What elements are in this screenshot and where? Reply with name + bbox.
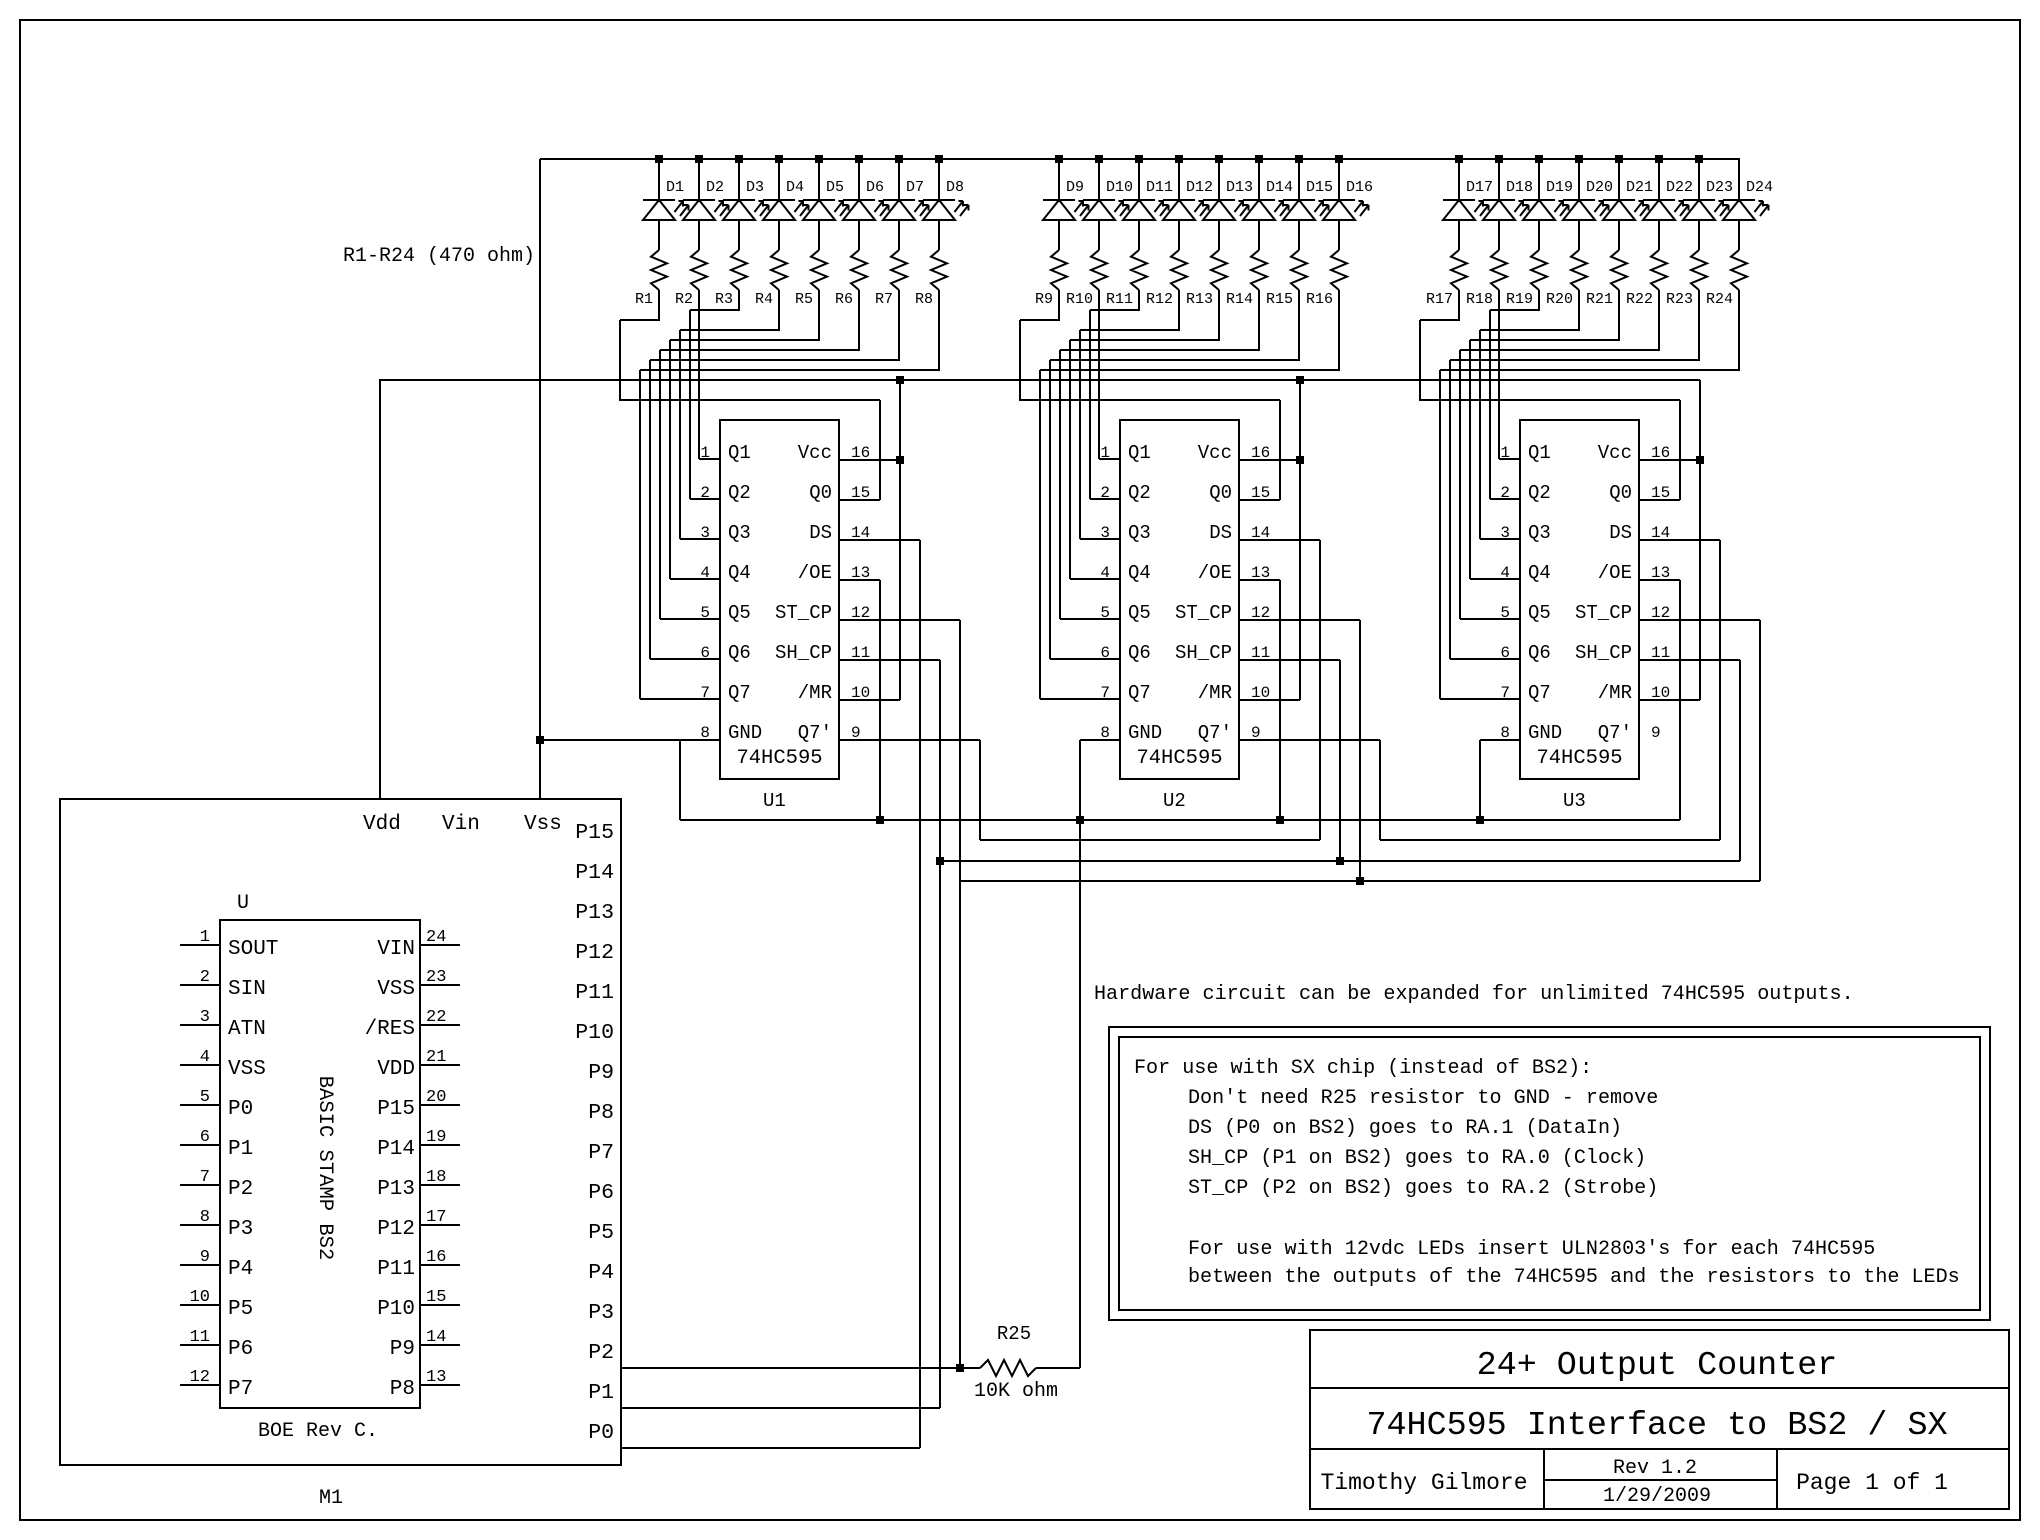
svg-text:P15: P15: [575, 821, 614, 845]
svg-text:/MR: /MR: [1598, 682, 1632, 704]
svg-text:21: 21: [426, 1048, 446, 1067]
svg-text:24: 24: [426, 928, 446, 947]
svg-text:74HC595: 74HC595: [1536, 747, 1622, 770]
svg-text:/MR: /MR: [798, 682, 832, 704]
svg-text:1: 1: [1500, 444, 1510, 462]
svg-text:D16: D16: [1346, 179, 1373, 196]
svg-text:14: 14: [1251, 524, 1270, 542]
svg-text:ST_CP: ST_CP: [775, 602, 832, 624]
svg-text:SH_CP (P1 on BS2) goes to RA.0: SH_CP (P1 on BS2) goes to RA.0 (Clock): [1188, 1147, 1646, 1170]
svg-text:Q3: Q3: [1128, 522, 1151, 544]
svg-text:1: 1: [700, 444, 710, 462]
svg-text:Q4: Q4: [728, 562, 751, 584]
svg-text:between the outputs of the 74H: between the outputs of the 74HC595 and t…: [1188, 1266, 1960, 1289]
svg-text:16: 16: [1251, 444, 1270, 462]
svg-text:For use with SX chip (instead: For use with SX chip (instead of BS2):: [1134, 1057, 1592, 1080]
svg-text:P0: P0: [228, 1098, 253, 1121]
svg-text:24+ Output Counter: 24+ Output Counter: [1477, 1347, 1838, 1385]
svg-text:R12: R12: [1146, 291, 1173, 308]
svg-text:P1: P1: [228, 1138, 253, 1161]
svg-text:P9: P9: [390, 1338, 415, 1361]
svg-text:P14: P14: [575, 861, 614, 885]
svg-text:R16: R16: [1306, 291, 1333, 308]
svg-text:D11: D11: [1146, 179, 1173, 196]
svg-text:Q2: Q2: [1528, 482, 1551, 504]
svg-text:1: 1: [200, 928, 210, 947]
svg-text:15: 15: [1251, 484, 1270, 502]
svg-text:ST_CP (P2 on BS2) goes to RA.2: ST_CP (P2 on BS2) goes to RA.2 (Strobe): [1188, 1177, 1658, 1200]
svg-text:Q5: Q5: [1528, 602, 1551, 624]
svg-text:P5: P5: [228, 1298, 253, 1321]
svg-text:ST_CP: ST_CP: [1575, 602, 1632, 624]
svg-text:R1: R1: [635, 291, 653, 308]
svg-text:R2: R2: [675, 291, 693, 308]
svg-text:Hardware circuit can be expand: Hardware circuit can be expanded for unl…: [1094, 983, 1854, 1006]
svg-text:4: 4: [200, 1048, 210, 1067]
svg-text:P12: P12: [575, 941, 614, 965]
svg-text:Q2: Q2: [1128, 482, 1151, 504]
svg-text:1: 1: [1100, 444, 1110, 462]
svg-text:Vcc: Vcc: [1598, 442, 1632, 464]
svg-text:D6: D6: [866, 179, 884, 196]
svg-text:8: 8: [700, 724, 710, 742]
svg-text:3: 3: [700, 524, 710, 542]
svg-text:10: 10: [190, 1288, 210, 1307]
svg-text:Q7: Q7: [1528, 682, 1551, 704]
svg-text:D21: D21: [1626, 179, 1653, 196]
svg-text:12: 12: [190, 1368, 210, 1387]
svg-text:Vss: Vss: [524, 813, 562, 836]
svg-text:P3: P3: [588, 1301, 614, 1325]
svg-text:Q5: Q5: [728, 602, 751, 624]
svg-text:/OE: /OE: [1198, 562, 1232, 584]
svg-text:Q6: Q6: [728, 642, 751, 664]
svg-text:P10: P10: [377, 1298, 415, 1321]
svg-text:D8: D8: [946, 179, 964, 196]
svg-text:2: 2: [1500, 484, 1510, 502]
svg-text:11: 11: [190, 1328, 210, 1347]
svg-text:Q7': Q7': [1598, 722, 1632, 744]
svg-text:Q7: Q7: [728, 682, 751, 704]
svg-text:1/29/2009: 1/29/2009: [1603, 1485, 1711, 1508]
svg-text:R15: R15: [1266, 291, 1293, 308]
svg-text:P9: P9: [588, 1061, 614, 1085]
svg-text:D1: D1: [666, 179, 684, 196]
svg-text:9: 9: [1251, 724, 1261, 742]
svg-text:Q3: Q3: [728, 522, 751, 544]
svg-text:P1: P1: [588, 1381, 614, 1405]
svg-text:10: 10: [851, 684, 870, 702]
svg-text:D12: D12: [1186, 179, 1213, 196]
svg-text:19: 19: [426, 1128, 446, 1147]
svg-text:16: 16: [1651, 444, 1670, 462]
svg-text:13: 13: [1651, 564, 1670, 582]
svg-text:R19: R19: [1506, 291, 1533, 308]
svg-text:SH_CP: SH_CP: [775, 642, 832, 664]
svg-text:P5: P5: [588, 1221, 614, 1245]
svg-text:P14: P14: [377, 1138, 415, 1161]
svg-text:2: 2: [700, 484, 710, 502]
svg-text:2: 2: [1100, 484, 1110, 502]
svg-text:7: 7: [700, 684, 710, 702]
svg-text:14: 14: [426, 1328, 446, 1347]
svg-text:R8: R8: [915, 291, 933, 308]
svg-text:5: 5: [1100, 604, 1110, 622]
svg-text:R7: R7: [875, 291, 893, 308]
svg-text:7: 7: [200, 1168, 210, 1187]
svg-text:4: 4: [700, 564, 710, 582]
svg-text:16: 16: [851, 444, 870, 462]
svg-text:7: 7: [1500, 684, 1510, 702]
svg-text:D20: D20: [1586, 179, 1613, 196]
svg-text:14: 14: [1651, 524, 1670, 542]
svg-text:10K ohm: 10K ohm: [974, 1380, 1058, 1403]
svg-text:P0: P0: [588, 1421, 614, 1445]
svg-text:D13: D13: [1226, 179, 1253, 196]
svg-text:Q5: Q5: [1128, 602, 1151, 624]
svg-text:18: 18: [426, 1168, 446, 1187]
svg-text:Q7': Q7': [1198, 722, 1232, 744]
svg-text:Q1: Q1: [1128, 442, 1151, 464]
svg-text:10: 10: [1651, 684, 1670, 702]
svg-text:P2: P2: [588, 1341, 614, 1365]
svg-text:Q4: Q4: [1128, 562, 1151, 584]
svg-text:R18: R18: [1466, 291, 1493, 308]
svg-text:R25: R25: [997, 1323, 1031, 1345]
svg-text:74HC595 Interface to BS2 / SX: 74HC595 Interface to BS2 / SX: [1366, 1407, 1947, 1445]
svg-text:SIN: SIN: [228, 978, 266, 1001]
svg-text:3: 3: [200, 1008, 210, 1027]
svg-text:GND: GND: [728, 722, 762, 744]
svg-text:R6: R6: [835, 291, 853, 308]
svg-text:R24: R24: [1706, 291, 1733, 308]
svg-text:4: 4: [1100, 564, 1110, 582]
svg-text:6: 6: [700, 644, 710, 662]
svg-text:DS: DS: [1609, 522, 1632, 544]
svg-text:Vin: Vin: [442, 813, 480, 836]
svg-text:D15: D15: [1306, 179, 1333, 196]
svg-text:SH_CP: SH_CP: [1175, 642, 1232, 664]
svg-text:R10: R10: [1066, 291, 1093, 308]
svg-text:P6: P6: [228, 1338, 253, 1361]
svg-text:Don't need R25 resistor to GND: Don't need R25 resistor to GND - remove: [1188, 1087, 1658, 1110]
svg-text:Q1: Q1: [728, 442, 751, 464]
svg-text:/OE: /OE: [798, 562, 832, 584]
svg-text:12: 12: [851, 604, 870, 622]
svg-text:D3: D3: [746, 179, 764, 196]
svg-text:/RES: /RES: [365, 1018, 415, 1041]
svg-text:Q0: Q0: [1209, 482, 1232, 504]
svg-text:R13: R13: [1186, 291, 1213, 308]
svg-text:P7: P7: [588, 1141, 614, 1165]
svg-text:P3: P3: [228, 1218, 253, 1241]
svg-text:Timothy Gilmore: Timothy Gilmore: [1320, 1470, 1527, 1496]
svg-text:U2: U2: [1163, 790, 1186, 812]
svg-text:P8: P8: [390, 1378, 415, 1401]
svg-text:P6: P6: [588, 1181, 614, 1205]
svg-text:R5: R5: [795, 291, 813, 308]
svg-text:R9: R9: [1035, 291, 1053, 308]
svg-text:Q6: Q6: [1128, 642, 1151, 664]
svg-text:11: 11: [851, 644, 870, 662]
svg-text:8: 8: [1100, 724, 1110, 742]
svg-text:P11: P11: [575, 981, 614, 1005]
svg-text:74HC595: 74HC595: [736, 747, 822, 770]
svg-text:R11: R11: [1106, 291, 1133, 308]
svg-text:16: 16: [426, 1248, 446, 1267]
svg-text:R4: R4: [755, 291, 773, 308]
svg-text:VSS: VSS: [377, 978, 415, 1001]
svg-text:17: 17: [426, 1208, 446, 1227]
svg-text:10: 10: [1251, 684, 1270, 702]
svg-text:M1: M1: [319, 1487, 343, 1510]
svg-text:6: 6: [200, 1128, 210, 1147]
svg-text:Q3: Q3: [1528, 522, 1551, 544]
svg-text:Vdd: Vdd: [363, 813, 401, 836]
svg-text:Q1: Q1: [1528, 442, 1551, 464]
svg-text:For use with 12vdc LEDs insert: For use with 12vdc LEDs insert ULN2803's…: [1188, 1238, 1875, 1261]
svg-text:P13: P13: [575, 901, 614, 925]
svg-text:GND: GND: [1528, 722, 1562, 744]
svg-text:P12: P12: [377, 1218, 415, 1241]
svg-text:15: 15: [426, 1288, 446, 1307]
svg-text:P13: P13: [377, 1178, 415, 1201]
svg-text:D10: D10: [1106, 179, 1133, 196]
svg-text:D9: D9: [1066, 179, 1084, 196]
svg-text:D7: D7: [906, 179, 924, 196]
svg-text:6: 6: [1500, 644, 1510, 662]
svg-text:Vcc: Vcc: [1198, 442, 1232, 464]
svg-text:R21: R21: [1586, 291, 1613, 308]
svg-text:13: 13: [1251, 564, 1270, 582]
svg-text:13: 13: [851, 564, 870, 582]
svg-text:U1: U1: [763, 790, 786, 812]
svg-text:Q2: Q2: [728, 482, 751, 504]
svg-text:20: 20: [426, 1088, 446, 1107]
svg-text:D24: D24: [1746, 179, 1773, 196]
svg-text:5: 5: [700, 604, 710, 622]
svg-text:Q6: Q6: [1528, 642, 1551, 664]
svg-text:Q7': Q7': [798, 722, 832, 744]
svg-text:6: 6: [1100, 644, 1110, 662]
svg-text:D5: D5: [826, 179, 844, 196]
svg-text:U3: U3: [1563, 790, 1586, 812]
svg-text:/OE: /OE: [1598, 562, 1632, 584]
svg-text:11: 11: [1651, 644, 1670, 662]
svg-text:14: 14: [851, 524, 870, 542]
svg-text:4: 4: [1500, 564, 1510, 582]
svg-text:15: 15: [851, 484, 870, 502]
svg-text:Page 1 of 1: Page 1 of 1: [1796, 1470, 1948, 1496]
svg-text:R1-R24 (470 ohm): R1-R24 (470 ohm): [343, 245, 535, 268]
svg-text:7: 7: [1100, 684, 1110, 702]
svg-text:VIN: VIN: [377, 938, 415, 961]
svg-text:DS (P0 on BS2) goes to RA.1 (D: DS (P0 on BS2) goes to RA.1 (DataIn): [1188, 1117, 1622, 1140]
svg-text:D19: D19: [1546, 179, 1573, 196]
svg-text:P8: P8: [588, 1101, 614, 1125]
svg-text:D23: D23: [1706, 179, 1733, 196]
svg-text:Q0: Q0: [1609, 482, 1632, 504]
svg-text:8: 8: [1500, 724, 1510, 742]
svg-text:BASIC STAMP BS2: BASIC STAMP BS2: [313, 1076, 336, 1261]
svg-text:23: 23: [426, 968, 446, 987]
svg-text:R22: R22: [1626, 291, 1653, 308]
svg-text:R14: R14: [1226, 291, 1253, 308]
svg-text:3: 3: [1100, 524, 1110, 542]
svg-text:P11: P11: [377, 1258, 415, 1281]
svg-text:ST_CP: ST_CP: [1175, 602, 1232, 624]
svg-text:3: 3: [1500, 524, 1510, 542]
svg-text:P2: P2: [228, 1178, 253, 1201]
svg-text:R23: R23: [1666, 291, 1693, 308]
svg-text:P4: P4: [228, 1258, 253, 1281]
svg-text:ATN: ATN: [228, 1018, 266, 1041]
svg-text:GND: GND: [1128, 722, 1162, 744]
svg-text:P10: P10: [575, 1021, 614, 1045]
svg-text:5: 5: [200, 1088, 210, 1107]
svg-text:VSS: VSS: [228, 1058, 266, 1081]
svg-text:Q7: Q7: [1128, 682, 1151, 704]
svg-text:9: 9: [851, 724, 861, 742]
svg-text:P15: P15: [377, 1098, 415, 1121]
svg-text:2: 2: [200, 968, 210, 987]
svg-text:15: 15: [1651, 484, 1670, 502]
svg-text:P7: P7: [228, 1378, 253, 1401]
svg-text:5: 5: [1500, 604, 1510, 622]
svg-text:Rev 1.2: Rev 1.2: [1613, 1457, 1697, 1480]
svg-text:BOE Rev C.: BOE Rev C.: [258, 1420, 378, 1443]
svg-text:/MR: /MR: [1198, 682, 1232, 704]
svg-text:9: 9: [1651, 724, 1661, 742]
svg-text:13: 13: [426, 1368, 446, 1387]
svg-text:DS: DS: [1209, 522, 1232, 544]
svg-text:12: 12: [1251, 604, 1270, 622]
svg-text:Q4: Q4: [1528, 562, 1551, 584]
svg-text:U: U: [237, 892, 249, 915]
svg-text:D17: D17: [1466, 179, 1493, 196]
svg-text:22: 22: [426, 1008, 446, 1027]
svg-text:Vcc: Vcc: [798, 442, 832, 464]
svg-text:D22: D22: [1666, 179, 1693, 196]
svg-text:R3: R3: [715, 291, 733, 308]
svg-text:VDD: VDD: [377, 1058, 415, 1081]
svg-text:D4: D4: [786, 179, 804, 196]
svg-text:11: 11: [1251, 644, 1270, 662]
svg-text:74HC595: 74HC595: [1136, 747, 1222, 770]
svg-text:SOUT: SOUT: [228, 938, 278, 961]
svg-text:8: 8: [200, 1208, 210, 1227]
svg-text:D2: D2: [706, 179, 724, 196]
svg-text:P4: P4: [588, 1261, 614, 1285]
svg-text:DS: DS: [809, 522, 832, 544]
svg-text:SH_CP: SH_CP: [1575, 642, 1632, 664]
svg-text:D14: D14: [1266, 179, 1293, 196]
svg-text:Q0: Q0: [809, 482, 832, 504]
svg-text:R17: R17: [1426, 291, 1453, 308]
svg-text:12: 12: [1651, 604, 1670, 622]
svg-text:9: 9: [200, 1248, 210, 1267]
svg-text:D18: D18: [1506, 179, 1533, 196]
svg-text:R20: R20: [1546, 291, 1573, 308]
